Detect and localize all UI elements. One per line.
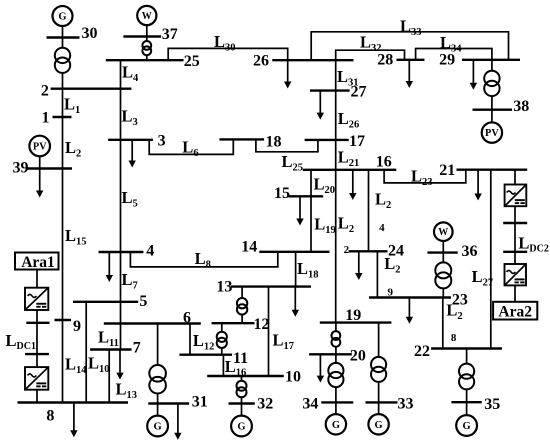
bus 23: [369, 296, 451, 298]
svg-text:32: 32: [257, 396, 273, 413]
bus 7: [90, 348, 131, 350]
load arrow bus 29: [470, 60, 477, 90]
bus 12: [212, 322, 255, 324]
svg-text:L25: L25: [282, 152, 304, 174]
wire bus 38 to PV38: [491, 110, 493, 123]
wire DC terminal to converter 2: [36, 354, 38, 367]
bus 14: [259, 251, 329, 253]
svg-text:2: 2: [344, 244, 350, 256]
wire L31 bus 26 to bus 27: [335, 60, 337, 90]
line L34 bus 28 to bus 29: [416, 49, 492, 60]
bus 4: [99, 251, 144, 253]
converter 4 of HVDC link 2: [505, 264, 527, 285]
svg-text:L2: L2: [338, 214, 354, 236]
load arrow bus 39: [36, 169, 43, 198]
svg-text:L2: L2: [65, 138, 81, 160]
svg-text:8: 8: [451, 332, 457, 344]
wire bus 21 to converter 3: [514, 170, 516, 185]
wire DC terminal to converter 4: [514, 252, 516, 264]
DC terminal tick 4: [503, 251, 527, 253]
load arrow bus 20: [317, 354, 324, 382]
generator G at bus 30: [53, 6, 73, 26]
wire L28 bus 23 to bus 22: [442, 298, 444, 349]
bus 17: [305, 139, 349, 141]
svg-text:16: 16: [376, 154, 392, 171]
wire converter 1 to DC terminal: [36, 310, 38, 354]
wire bus 13 to transformer T12: [241, 287, 243, 324]
wind generator W at bus 36: [434, 222, 453, 241]
wire transformer T30 to bus 2: [62, 70, 64, 89]
wire L11 bus 5 to bus 7: [120, 302, 122, 350]
load arrow bus 7: [116, 350, 123, 380]
bus 35: [451, 401, 481, 403]
svg-text:10: 10: [285, 368, 301, 385]
svg-text:1: 1: [42, 110, 50, 127]
svg-text:29: 29: [439, 52, 455, 69]
load arrow bus 23: [406, 298, 413, 324]
svg-text:19: 19: [345, 307, 361, 324]
bus 32: [229, 402, 255, 404]
wind generator W at bus 37: [137, 6, 156, 25]
bus 13: [231, 285, 311, 287]
svg-text:34: 34: [302, 395, 318, 412]
transformer T33 (19-33): [371, 357, 386, 382]
wire L20 bus 16 to bus 15: [310, 170, 312, 197]
svg-text:W: W: [142, 11, 152, 22]
wire L29 bus 24 to bus 23: [376, 251, 378, 297]
svg-text:37: 37: [162, 26, 178, 43]
line L23 bus 16 to bus 21: [384, 170, 466, 183]
bus 19: [320, 321, 392, 323]
svg-text:15: 15: [274, 185, 290, 202]
bus 5: [73, 301, 138, 303]
svg-text:2: 2: [41, 82, 49, 99]
DC terminal tick 2: [25, 353, 49, 355]
svg-text:PV: PV: [33, 142, 47, 153]
bus 22: [431, 347, 502, 349]
svg-text:L23: L23: [411, 167, 433, 189]
wire W37 to bus 37 and transformer: [146, 26, 148, 45]
svg-text:36: 36: [462, 243, 478, 260]
converter 1 of HVDC link 1: [25, 288, 48, 310]
svg-text:22: 22: [414, 343, 430, 360]
svg-text:L33: L33: [400, 17, 422, 39]
svg-text:26: 26: [253, 53, 269, 70]
wire L1 bus 2 to bus 1: [62, 89, 64, 117]
svg-text:G: G: [375, 420, 383, 431]
svg-text:PV: PV: [485, 128, 499, 139]
wire bus 32 to G32: [241, 404, 243, 416]
generator G at bus 33: [368, 414, 388, 434]
svg-text:8: 8: [46, 408, 54, 425]
svg-text:L30: L30: [214, 32, 236, 54]
wire L5 bus 3 to bus 4: [120, 140, 122, 253]
svg-text:L7: L7: [122, 270, 138, 292]
PV generator at bus 39: [29, 136, 50, 157]
svg-text:38: 38: [513, 98, 529, 115]
wire bus 29 to transformer T38: [491, 60, 493, 110]
bus 18: [219, 138, 264, 140]
bus 29: [462, 59, 520, 61]
svg-text:L6: L6: [182, 138, 198, 160]
svg-text:12: 12: [254, 316, 270, 333]
load arrow bus 24: [355, 251, 362, 280]
wire bus 6 to transformer T31 to bus 31: [157, 324, 159, 404]
wire L22 bus 16 to bus 19: [335, 170, 337, 323]
load arrow bus 27: [317, 91, 324, 120]
transformer T20 (19-20): [332, 331, 341, 347]
wire bus 20 to transformer T34 to bus 34: [335, 354, 337, 402]
load arrow bus 15: [296, 196, 303, 225]
generator G at bus 35: [456, 415, 477, 436]
generator G at bus 32: [231, 416, 252, 437]
wire Ara1 to converter 1: [36, 270, 38, 288]
svg-text:L27: L27: [472, 267, 494, 289]
generator G at bus 34: [326, 414, 346, 434]
svg-text:4: 4: [379, 222, 385, 234]
load arrow bus 16: [349, 170, 356, 200]
load arrow bus 21: [474, 170, 481, 201]
svg-text:L10: L10: [88, 354, 110, 376]
svg-text:L14: L14: [65, 355, 87, 377]
wire W36 to bus 36 tick: [442, 241, 444, 253]
bus 34: [321, 401, 353, 403]
svg-text:5: 5: [139, 293, 147, 310]
transformer T11 (12-11): [217, 332, 227, 348]
Ara1 converter-station box: [15, 253, 59, 272]
wire L14 bus 9 to bus 8: [62, 320, 64, 403]
bus 37: [123, 35, 161, 37]
bus 31: [148, 402, 189, 404]
svg-text:33: 33: [398, 395, 414, 412]
load arrow bus 26: [284, 60, 291, 88]
wire bus 31 to G31: [157, 404, 159, 416]
bus 10: [207, 375, 284, 377]
generator G at bus 31: [147, 416, 168, 437]
bus 38: [473, 108, 513, 110]
bus 24: [349, 250, 388, 252]
wire bus 35 to G35: [466, 402, 468, 415]
svg-text:39: 39: [13, 160, 29, 177]
DC terminal tick 1: [26, 322, 49, 324]
wire L2 bus 1 to bus 39: [62, 117, 64, 169]
svg-text:G: G: [154, 422, 162, 433]
bus 20: [309, 353, 352, 355]
svg-text:9: 9: [73, 318, 81, 335]
bus 33: [366, 401, 398, 403]
wire L10 bus 5 to bus 8: [85, 302, 87, 403]
svg-text:L3: L3: [122, 107, 138, 129]
svg-text:L5: L5: [122, 188, 138, 210]
line L30 bus 25 to bus 26: [168, 48, 288, 60]
svg-text:31: 31: [192, 394, 208, 411]
wire L16 bus 11 to bus 10: [222, 355, 224, 376]
svg-text:L19: L19: [314, 215, 336, 237]
bus 2: [51, 87, 132, 89]
line L8 bus 4 to bus 14: [130, 252, 277, 267]
transformer T36 (36-23): [435, 262, 451, 288]
transformer T38 (29-38): [484, 71, 499, 96]
svg-text:G: G: [463, 421, 471, 432]
bus 27: [310, 89, 350, 91]
wire bus 19 to transformer T20 to bus 20: [335, 323, 337, 355]
svg-text:30: 30: [82, 25, 98, 42]
DC terminal tick 3: [503, 222, 527, 224]
transformer T32 (10-32): [237, 381, 247, 398]
svg-text:L11: L11: [98, 328, 119, 350]
wire L18 bus 14 to bus 13: [295, 252, 297, 287]
load arrow bus 28: [406, 60, 413, 88]
wire converter 3 to DC terminal: [514, 206, 516, 252]
transformer T12 (13-12): [237, 298, 247, 315]
wire L15 bus 39 to bus 9: [62, 169, 64, 321]
svg-text:G: G: [237, 422, 245, 433]
svg-text:Ara1: Ara1: [21, 254, 55, 271]
load arrow bus 3: [129, 140, 136, 168]
wire L17 bus 13 to bus 10: [268, 287, 270, 376]
wire L26 bus 27 to bus 17: [335, 91, 337, 140]
svg-text:LDC1: LDC1: [6, 331, 36, 352]
line L33 bus 26 to bus 29: [311, 32, 508, 60]
bus 30: [47, 36, 80, 38]
bus 11: [179, 354, 232, 356]
transformer T37 (37-25): [142, 41, 151, 55]
wire PV39 to bus 39: [39, 156, 41, 169]
wire L24 bus 16 to bus 24: [368, 170, 370, 252]
svg-text:L17: L17: [273, 331, 295, 353]
svg-text:L26: L26: [338, 109, 360, 131]
svg-text:L13: L13: [116, 380, 138, 402]
wire bus 12 to transformer T11 to bus 11: [221, 323, 223, 355]
svg-text:L21: L21: [338, 148, 360, 170]
PV generator at bus 38: [482, 122, 502, 142]
svg-text:Ara2: Ara2: [498, 304, 532, 321]
bus 26: [272, 59, 353, 61]
wire L4 bus 25 to bus 2: [120, 60, 122, 88]
transformer T31 (6-31): [149, 365, 166, 394]
svg-text:L12: L12: [193, 331, 215, 353]
svg-text:L8: L8: [195, 249, 211, 271]
transformer T34 (20-34): [328, 363, 343, 387]
converter 3 of HVDC link 2: [505, 185, 527, 207]
svg-text:W: W: [438, 227, 448, 238]
wire transformer T36 to bus 23: [442, 253, 444, 298]
wire transformer T37 to bus 25: [146, 50, 148, 61]
svg-text:28: 28: [377, 52, 393, 69]
wire bus 33 to G33: [378, 402, 380, 414]
wire bus 34 to G34: [335, 402, 337, 414]
wire L21 bus 17 to bus 16: [335, 140, 337, 170]
line L32 bus 26 to bus 28: [336, 50, 405, 60]
bus 8: [18, 401, 129, 403]
svg-text:L18: L18: [297, 259, 319, 281]
svg-text:L2: L2: [375, 190, 391, 212]
wire L19 bus 15 to bus 14: [310, 196, 312, 252]
wire L7 bus 4 to bus 5: [120, 253, 122, 302]
bus 1: [53, 116, 72, 118]
svg-text:27: 27: [351, 84, 367, 101]
svg-text:3: 3: [158, 133, 166, 150]
svg-text:LDC2: LDC2: [518, 233, 548, 254]
svg-text:35: 35: [484, 396, 500, 413]
svg-text:L4: L4: [122, 63, 139, 85]
line L25 bus 18 to bus 17: [256, 139, 318, 151]
converter 2 of HVDC link 1: [25, 367, 48, 390]
line L6 bus 3 to bus 18: [149, 139, 233, 154]
bus 28: [397, 59, 425, 61]
wire L12 bus 6 to bus 11: [189, 324, 191, 355]
bus 6: [104, 322, 201, 324]
bus 3: [108, 139, 153, 141]
wire L13 bus 7 to bus 8: [108, 350, 110, 403]
wire bus 19 to transformer T33 to bus 33: [378, 323, 380, 403]
svg-text:25: 25: [184, 53, 200, 70]
load arrow bus 13: [292, 287, 299, 317]
svg-text:17: 17: [349, 133, 365, 150]
svg-text:21: 21: [439, 162, 455, 179]
svg-text:7: 7: [133, 339, 141, 356]
Ara2 converter-station box: [493, 302, 537, 321]
bus 9: [55, 319, 72, 321]
svg-text:L15: L15: [65, 226, 87, 248]
bus 39: [27, 167, 72, 169]
wire L27 bus 21 to bus 22: [490, 170, 492, 349]
bus 25: [106, 59, 184, 61]
load arrow bus 8: [70, 403, 77, 438]
wire converter 2 to bus 8: [36, 390, 38, 403]
transformer T35 (22-35): [459, 364, 474, 390]
svg-text:14: 14: [241, 239, 257, 256]
load arrow bus 4: [106, 253, 113, 283]
svg-text:13: 13: [216, 279, 232, 296]
load arrow bus 31: [174, 404, 181, 440]
svg-text:4: 4: [146, 242, 154, 259]
wire G30 to bus 30 and transformer: [62, 26, 64, 49]
bus 16: [303, 169, 397, 171]
svg-text:G: G: [332, 420, 340, 431]
wire bus 10 to transformer T32 to bus 32: [241, 376, 243, 404]
bus 21: [457, 168, 528, 170]
svg-text:20: 20: [350, 348, 366, 365]
wire converter 4 to Ara2: [514, 285, 516, 301]
bus 36: [427, 251, 457, 253]
svg-text:18: 18: [266, 134, 282, 151]
bus 15: [288, 195, 323, 197]
svg-text:G: G: [58, 12, 66, 23]
wire bus 22 to transformer T35: [466, 349, 468, 403]
svg-text:L20: L20: [314, 175, 336, 197]
wire L3 bus 2 to bus 3: [120, 89, 122, 140]
svg-text:L1: L1: [64, 95, 80, 117]
transformer T30 (30-2): [55, 48, 70, 73]
